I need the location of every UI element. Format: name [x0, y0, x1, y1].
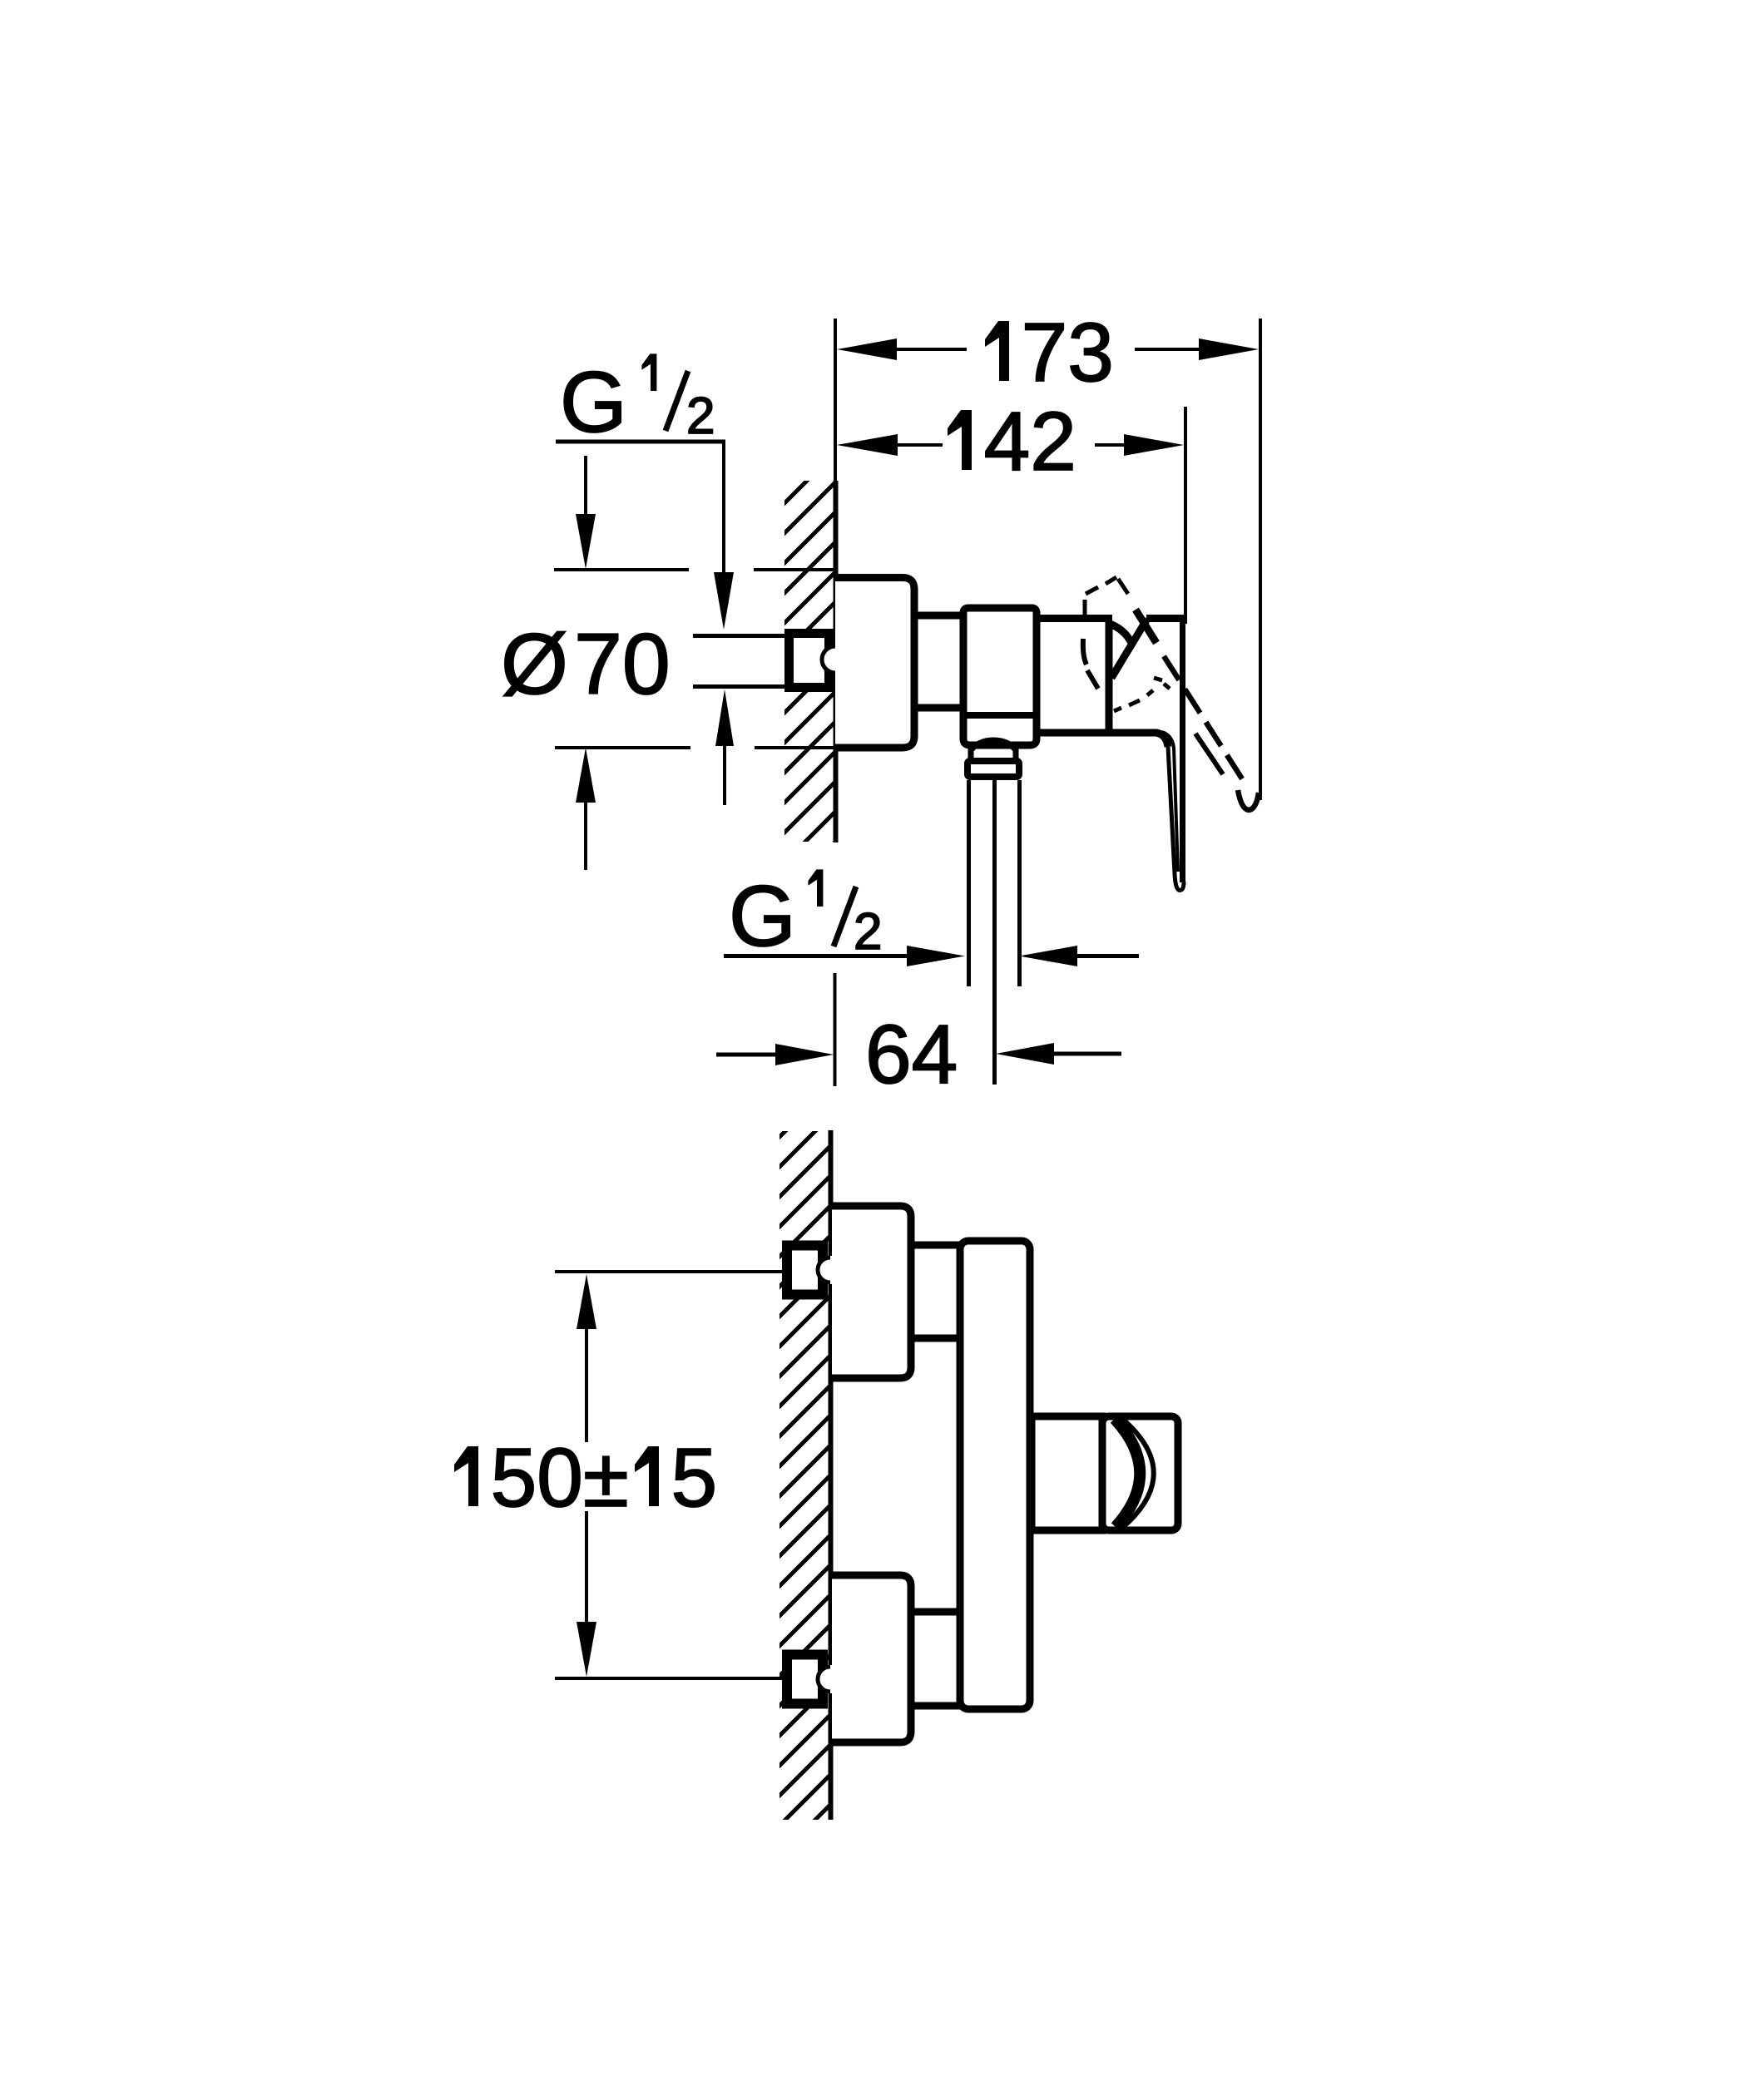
dimension 150±15 text — [454, 1446, 478, 1506]
neck top line — [914, 612, 965, 620]
upper escutcheon cup — [832, 1206, 911, 1378]
dimension 173 line — [895, 348, 967, 351]
knob crescent thin — [1121, 1418, 1154, 1528]
dimension 150 upper arrow (up) — [577, 1274, 596, 1329]
hose left line — [967, 780, 971, 986]
valve body bottom separation line — [967, 712, 1033, 719]
dimension 142 left arrowhead — [837, 434, 898, 456]
diameter 70 upper arrow (down) — [584, 456, 587, 519]
lever right edge — [1180, 620, 1185, 882]
handle section arc — [1110, 624, 1131, 643]
handle section line A — [1136, 610, 1156, 643]
upper wall union square — [787, 1246, 823, 1295]
diameter 70 extension line bottom — [555, 746, 690, 749]
dimension 142 right arrowhead — [1124, 434, 1184, 456]
cartridge housing bottom line with lever curve — [1037, 733, 1168, 747]
handle hidden arc small 2 — [1087, 670, 1098, 689]
label G 1/2 leader arrowhead — [714, 572, 734, 630]
lower escutcheon cup — [832, 1575, 911, 1742]
wall hatching (bottom figure) — [779, 1131, 829, 1820]
valve body (top figure) — [963, 608, 1037, 745]
lower union neck top line — [911, 1608, 962, 1616]
wall socket arc (top figure) — [832, 645, 839, 674]
svg-text:70: 70 — [574, 616, 671, 713]
handle hidden arc small 1 — [1083, 639, 1086, 665]
dashed handle under-arc — [1114, 678, 1170, 711]
dimension 64 left extension line (wall) — [834, 973, 837, 1086]
dashed raised handle peak — [1085, 577, 1128, 615]
knob crescent thick — [1115, 1419, 1140, 1527]
svg-text:50±: 50± — [491, 1431, 629, 1524]
neck bottom line — [914, 704, 965, 712]
pipe nipple top line — [693, 634, 787, 638]
lever inner line — [1162, 732, 1178, 872]
handle knob (bottom figure) — [1102, 1416, 1178, 1530]
extension line right (142 / lever edge) — [1184, 407, 1187, 624]
lower wall union square — [787, 1655, 823, 1704]
G 1/2 hose dimension line left with arrow — [724, 954, 911, 958]
dimension 150 extension line bottom — [555, 1677, 782, 1680]
svg-text:42: 42 — [984, 395, 1076, 488]
hose right line — [1017, 780, 1022, 986]
svg-text:73: 73 — [1022, 306, 1114, 399]
dimension 173 right arrowhead — [1199, 338, 1259, 360]
diameter 70 extension line top — [554, 568, 689, 571]
wall face line (bottom figure) — [829, 1130, 834, 1820]
diameter 70 lower arrow (up) — [584, 797, 587, 870]
upper wall socket arc — [827, 1256, 834, 1284]
lower wall socket arc — [827, 1665, 834, 1693]
wall face line (top figure) — [834, 481, 839, 842]
upper union neck top line — [911, 1242, 962, 1249]
dimension 142 line — [896, 443, 943, 447]
hose middle line — [992, 780, 997, 1085]
svg-text:G: G — [729, 868, 796, 965]
dashed swung lever tip hook — [1238, 790, 1259, 810]
nipple lower arrow (up, G 1/2 pipe) — [723, 740, 726, 805]
extension line left (wall face, for 173/142) — [834, 319, 837, 481]
label G 1/2 (upper left) fraction slash — [666, 371, 688, 431]
upper union neck bottom line — [911, 1335, 962, 1342]
svg-text:2: 2 — [854, 903, 882, 961]
handle hub top line — [1146, 615, 1184, 622]
handle section line B — [1111, 619, 1147, 678]
extension line right (173, dashed-handle tip) — [1259, 319, 1262, 800]
label G 1/2 (hose) superscript 1 — [808, 869, 823, 907]
outlet nut — [968, 761, 1019, 777]
dimension 173 text — [985, 321, 1009, 381]
svg-text:2: 2 — [686, 388, 715, 445]
label G 1/2 (hose) fraction slash — [834, 887, 856, 946]
dimension 64 left arrow — [716, 1053, 779, 1057]
cartridge/hub separator — [1106, 622, 1113, 734]
mounting plate body — [960, 1241, 1030, 1709]
svg-text:Ø: Ø — [501, 616, 568, 713]
label G 1/2 underline — [556, 440, 725, 444]
svg-text:5: 5 — [671, 1431, 718, 1524]
wall hatching (top figure) — [784, 481, 834, 842]
dashed swung lever line 2 (parallel dash) — [1195, 734, 1223, 774]
lever tip — [1175, 874, 1184, 891]
lever left edge — [1168, 747, 1175, 874]
dimension 64 right arrow — [1052, 1052, 1121, 1056]
lower union neck bottom line — [911, 1702, 962, 1710]
svg-text:64: 64 — [865, 1008, 958, 1101]
pipe nipple bottom line — [693, 684, 787, 689]
label G 1/2 (upper left) superscript 1 — [641, 353, 656, 391]
G 1/2 hose dimension right arrow — [1076, 954, 1139, 958]
wall union square (top figure) — [789, 634, 829, 688]
label G 1/2 leader line down — [722, 442, 725, 576]
dashed swung lever line 1 — [1164, 656, 1243, 780]
dimension 142 text — [948, 410, 972, 470]
svg-text:G: G — [560, 354, 627, 451]
dimension 173 left arrowhead — [837, 338, 897, 360]
dimension 150 extension line top — [555, 1270, 782, 1273]
outlet collar dome — [971, 740, 1016, 758]
handle hub (bottom figure) — [1032, 1416, 1102, 1530]
escutcheon flange (top figure) — [835, 578, 914, 749]
cartridge housing top line — [1037, 615, 1112, 622]
dimension 150 lower arrow (down) — [585, 1511, 588, 1627]
